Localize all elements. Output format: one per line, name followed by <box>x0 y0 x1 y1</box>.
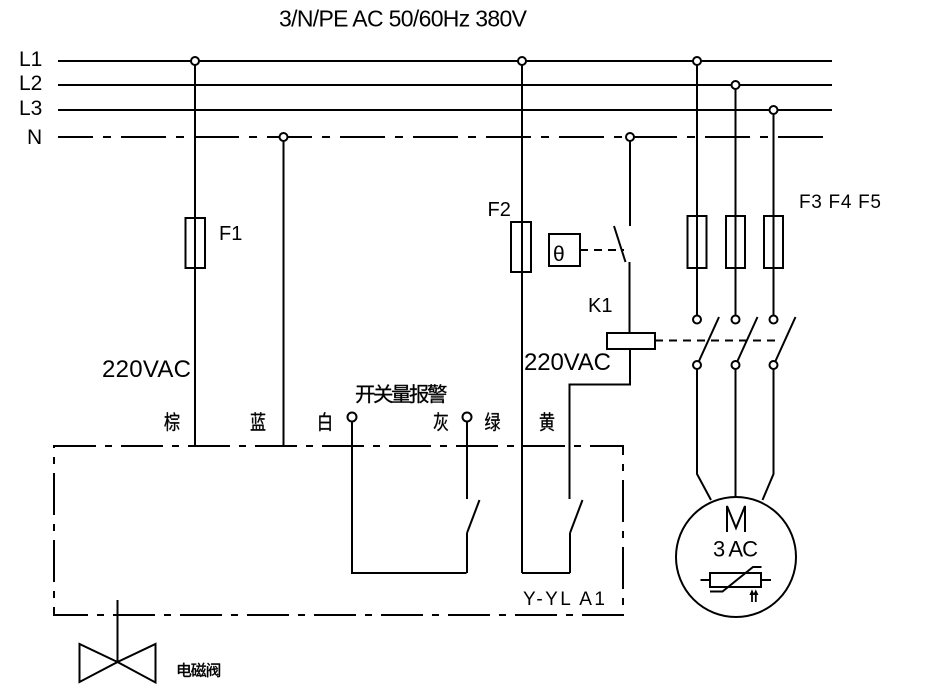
svg-text:L2: L2 <box>19 72 42 95</box>
motor M 3AC circle <box>676 497 796 617</box>
bus line L1 <box>19 48 832 71</box>
label wire colour blue <box>251 412 266 430</box>
fuse F4 <box>726 216 745 268</box>
terminal grey <box>463 413 472 422</box>
wire phase 1: bus to contactor <box>696 65 698 315</box>
svg-text:220VAC: 220VAC <box>524 349 611 376</box>
label wire colour yellow <box>540 412 554 431</box>
bus line L2 <box>19 72 832 95</box>
internal alarm switch blade <box>467 500 480 533</box>
relay coil K1 <box>588 295 655 349</box>
label wire colour brown <box>164 412 179 431</box>
wire phase 1: contactor to motor <box>697 369 711 500</box>
wire white: terminal into box to bottom rail <box>352 422 467 574</box>
wire phase 3: bus to contactor <box>773 114 775 315</box>
terminal white <box>348 413 357 422</box>
wire: N node down to thermal contact <box>629 141 631 226</box>
node on L1 (F2 tap) <box>518 57 526 65</box>
solenoid valve symbol <box>80 644 156 683</box>
motor letter M <box>727 506 745 532</box>
fuse F3 <box>688 216 707 268</box>
node on N (blue wire tap) <box>280 133 288 141</box>
dashed link theta box to thermal contact <box>580 249 624 251</box>
bus line L3 <box>19 97 832 120</box>
svg-text:F3 F4 F5: F3 F4 F5 <box>799 192 881 213</box>
wire blue: N to controller box <box>283 141 285 445</box>
node on L2 (motor phase 2 tap) <box>732 81 740 89</box>
contactor K1 pole 1 blade <box>699 317 719 361</box>
wire green: L1 through F2 into box <box>521 65 523 573</box>
label wire colour grey <box>434 412 448 431</box>
svg-text:3 AC: 3 AC <box>713 537 758 562</box>
wire: alarm switch to bottom rail <box>466 533 468 573</box>
svg-text:θ: θ <box>553 243 565 266</box>
wire phase 2: contactor to motor <box>735 369 737 497</box>
svg-text:3/N/PE AC 50/60Hz 380V: 3/N/PE AC 50/60Hz 380V <box>279 6 528 32</box>
label wire colour white <box>319 412 330 431</box>
dashed link K1 coil to contactor blades <box>655 340 780 342</box>
controller enclosure Y-YL A1 (dash-dot box) <box>54 446 623 615</box>
contactor K1 pole 1 upper terminal <box>693 316 701 324</box>
node on L3 (motor phase 3 tap) <box>770 106 778 114</box>
fuse F5 <box>764 216 783 268</box>
svg-text:K1: K1 <box>588 295 612 317</box>
contactor K1 pole 3 upper terminal <box>770 316 778 324</box>
internal switch (yellow circuit) blade <box>570 500 583 533</box>
svg-text:L3: L3 <box>19 97 42 120</box>
contactor K1 pole 2 lower terminal <box>732 361 740 369</box>
label wire colour green <box>485 412 500 431</box>
svg-text:220VAC: 220VAC <box>102 356 191 383</box>
svg-text:Y-YL A1: Y-YL A1 <box>523 589 605 610</box>
wire: box to solenoid valve <box>117 600 119 662</box>
fuse F1 <box>186 218 243 268</box>
wire phase 2: bus to contactor <box>735 89 737 315</box>
bus line N (dash-dot) <box>27 126 832 149</box>
wire yellow: K1 coil down, left, into box to switch <box>570 349 631 499</box>
contactor K1 pole 2 blade <box>738 317 758 361</box>
svg-text:N: N <box>27 126 42 149</box>
thermistor temperature arrows <box>749 589 758 602</box>
contactor K1 pole 1 lower terminal <box>693 361 701 369</box>
contactor K1 pole 2 upper terminal <box>732 316 740 324</box>
contactor K1 pole 3 blade <box>776 317 796 361</box>
node on N (K1 circuit tap) <box>626 133 634 141</box>
label solenoid valve <box>178 663 220 678</box>
fuse F2 <box>488 199 532 272</box>
svg-text:L1: L1 <box>19 48 42 71</box>
wire: green-yellow link inside box <box>522 572 570 574</box>
temperature sensor box theta <box>549 234 580 266</box>
wire brown: L1 to controller box <box>194 65 196 445</box>
wire: contact to K1 coil <box>629 262 631 333</box>
thermal contact blade <box>614 226 626 262</box>
label alarm output <box>356 384 447 403</box>
node on L1 (brown wire tap) <box>191 57 199 65</box>
wire phase 3: contactor to motor <box>763 369 774 500</box>
node on L1 (motor phase 1 tap) <box>693 57 701 65</box>
wire grey: terminal to internal alarm switch <box>466 422 468 500</box>
svg-text:F1: F1 <box>219 223 242 245</box>
wire: switch to bottom rail <box>569 533 571 573</box>
contactor K1 pole 3 lower terminal <box>770 361 778 369</box>
motor thermistor element <box>701 567 772 592</box>
svg-text:F2: F2 <box>488 199 511 221</box>
